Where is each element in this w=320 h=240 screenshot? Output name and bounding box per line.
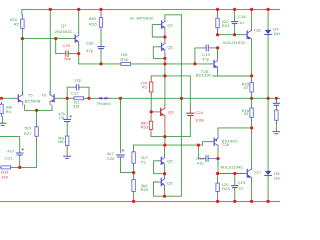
svg-text:C24: C24: [195, 110, 203, 115]
wire node F to R7: [67, 97, 74, 99]
wire C18 column: [234, 9, 236, 34]
svg-text:Q5: Q5: [167, 159, 173, 164]
transistor T27 MJL21194C npn: [243, 165, 251, 181]
junction dot C22 to P1 R29: [132, 171, 135, 174]
svg-text:C26: C26: [86, 40, 94, 45]
transistor T5 BC550B npn: [15, 92, 23, 105]
wire R7 right to probe: [84, 97, 99, 99]
wire R33 top red lead from Q3 base node: [150, 112, 152, 116]
wire bootstrap spine x=181: [165, 15, 182, 196]
wire T27 base net: [218, 173, 244, 175]
wire R16 leads: [251, 98, 253, 128]
capacitor C13 47p: [206, 45, 208, 51]
svg-text:4u7: 4u7: [107, 151, 115, 156]
capacitor zobel C (right edge): [273, 103, 279, 105]
diode D4: [265, 30, 272, 34]
wire Q7 collector riser: [78, 9, 80, 32]
wire probe to output rail right: [107, 97, 280, 99]
wire Q3 emitter red segment: [164, 119, 166, 134]
svg-text:T28: T28: [254, 27, 262, 32]
wire R26 column / C26 chain: [100, 9, 102, 64]
wire probe node drop to C22: [120, 98, 122, 153]
svg-text:Q2: Q2: [168, 45, 174, 50]
svg-text:T6: T6: [41, 92, 47, 97]
resistor R33 680 red: [150, 116, 152, 134]
wire tail node down to R27: [36, 110, 38, 124]
svg-text:R24: R24: [222, 23, 230, 28]
wire node E7 down to drive rail: [79, 54, 121, 64]
svg-text:47p: 47p: [197, 160, 205, 165]
wire T5 emitter tail: [25, 105, 52, 110]
wire C13 node to T25 collector top: [211, 47, 217, 49]
resistor zobel R19: [275, 110, 278, 120]
capacitor C14 47p: [206, 156, 208, 162]
wire feedback rail to T26 base jog: [134, 142, 211, 149]
junction dot C14 to T26 collector: [216, 157, 219, 160]
wire main output rail left segment: [0, 97, 15, 99]
wire R2 bottom to Q7 base (node VB): [22, 32, 74, 39]
wire R33 bottom corner: [150, 134, 152, 136]
wire C17 parallel loop: [67, 87, 89, 98]
svg-text:12p: 12p: [74, 77, 82, 82]
wire T25 emitter drop to rail76: [217, 71, 219, 76]
trimpot P2 720 red: [150, 76, 152, 95]
svg-text:C21: C21: [5, 155, 13, 160]
wire Q5 collector from feedback rail: [164, 145, 166, 154]
wire C23 left loop: [56, 39, 63, 54]
capacitor C19 1n: [232, 186, 238, 188]
svg-text:R2: R2: [14, 22, 20, 27]
svg-text:C23: C23: [62, 43, 70, 48]
svg-text:MJL21194C: MJL21194C: [221, 164, 243, 169]
svg-text:T26: T26: [222, 142, 230, 147]
svg-text:47p: 47p: [86, 48, 94, 53]
svg-text:C18: C18: [238, 14, 246, 19]
transistor T28 MJL21193C npn: [243, 27, 252, 43]
resistor R30 100: [121, 62, 131, 65]
wire C22 bottom corner to P1/R29 node: [121, 159, 134, 172]
svg-text:1N4: 1N4: [274, 175, 280, 180]
junction dots VAS spine: [163, 35, 166, 38]
transistor Q5 MPSA92 pnp: [158, 155, 165, 168]
svg-text:R23: R23: [222, 186, 230, 191]
svg-text:3x MPSA92: 3x MPSA92: [130, 15, 154, 20]
wire R16 node down to T27 collector: [251, 128, 253, 165]
svg-text:R29: R29: [141, 187, 149, 192]
junction dots T28 base net: [216, 33, 219, 36]
svg-text:BD139C: BD139C: [196, 73, 212, 78]
capacitor C24 100n red: [187, 113, 194, 115]
svg-text:T5: T5: [28, 92, 34, 97]
svg-text:R31: R31: [1, 169, 9, 174]
junction dots VB wire: [21, 37, 24, 40]
wire T26 emitter link: [218, 128, 252, 135]
svg-text:Q1: Q1: [168, 22, 174, 27]
transistor T25 BD139C npn: [211, 57, 218, 71]
wire upper bias rail left segment: [151, 75, 190, 77]
wire Q7 emitter drop: [78, 45, 80, 53]
wire T27 emitter to bottom rail: [251, 181, 253, 201]
wire T28 base net: [218, 34, 244, 36]
junction dot Q3 base node: [150, 110, 153, 113]
resistor R4 33k: [1, 102, 3, 116]
wire Q5 emitter to Q6: [164, 168, 166, 176]
junction dot bias rail y76: [250, 74, 253, 77]
transistor Q7 2N3483C pnp: [75, 33, 79, 46]
ground below R4: [0, 123, 6, 125]
transistor Q3 red npn: [151, 105, 165, 119]
wire Q1 base diode loop: [152, 25, 165, 37]
resistor R16 .33: [251, 105, 253, 120]
wire Q6 emitter to loop node: [164, 189, 166, 196]
svg-text:Q6: Q6: [167, 180, 173, 185]
wire T6 base to node F: [55, 97, 67, 99]
junction dot Q7 emitter node: [77, 52, 80, 55]
wire top positive rail: [22, 8, 280, 10]
wire R27 bottom to R11 wire: [12, 140, 36, 168]
svg-text:C19: C19: [238, 180, 246, 185]
svg-text:.47: .47: [243, 85, 250, 90]
wire Q1 collector bootstrap loop: [165, 15, 182, 18]
wire bottom negative rail: [0, 200, 280, 202]
wire C19 leads: [234, 174, 236, 202]
junction dots bottom rail: [132, 200, 135, 203]
svg-text:Q3: Q3: [168, 109, 174, 114]
wire T28 collector to top rail: [251, 9, 253, 26]
svg-text:680: 680: [89, 16, 97, 21]
junction dots top rail: [49, 8, 52, 11]
junction dots Q5 Q6 loops: [163, 172, 166, 175]
junction dots T27 base net: [216, 172, 219, 175]
resistor P1 2k7: [133, 149, 135, 166]
wire R15 leads: [251, 76, 253, 98]
wire T26 collector drop: [217, 149, 219, 173]
wire C13 left corner drop to base rail: [195, 48, 203, 64]
wire R2 top lead drop: [21, 9, 23, 14]
probe symbol Probe1: [97, 97, 110, 99]
svg-text:R26: R26: [89, 21, 97, 26]
svg-text:MJL21193C: MJL21193C: [223, 40, 245, 45]
svg-text:R30: R30: [120, 57, 128, 62]
resistor R2 620: [21, 15, 23, 32]
wire C14 hang from feedback rail (green drawn here for grouping): [197, 145, 199, 158]
svg-text:100n: 100n: [195, 118, 204, 123]
ground zobel: [273, 132, 280, 134]
capacitor C21 4u7 polarized: [16, 153, 23, 155]
junction dot LTP tail: [35, 109, 38, 112]
svg-text:C17: C17: [71, 91, 79, 96]
svg-text:1N4: 1N4: [273, 31, 280, 36]
wire T6 collector column: [49, 9, 51, 94]
svg-text:P2: P2: [142, 85, 148, 90]
wire Q3 emitter to bias node: [164, 134, 166, 145]
svg-text:47p: 47p: [202, 57, 210, 62]
svg-text:.33: .33: [243, 111, 250, 116]
capacitor C5 47u polarized: [64, 119, 71, 121]
wire R23 leads: [217, 174, 219, 202]
junction dots output rail: [0, 97, 3, 100]
capacitor C23 56p red: [66, 51, 68, 56]
transistor T6 BC550B npn mirrored: [50, 92, 55, 105]
transistor Q6 MPSA92 pnp: [158, 175, 165, 189]
svg-text:Probe1: Probe1: [97, 101, 111, 106]
wire Q2 emitter VAS spine: [164, 54, 166, 104]
svg-text:1n: 1n: [239, 20, 244, 25]
wire R24 column: [217, 9, 219, 34]
junction dots bias lower nodes: [163, 135, 166, 138]
junction dot C21 node: [18, 166, 21, 169]
svg-text:C5: C5: [59, 115, 65, 120]
wire bias lower link R33 to C24: [151, 136, 190, 138]
svg-text:T27: T27: [254, 170, 262, 175]
svg-text:2N3483C: 2N3483C: [55, 29, 73, 34]
capacitor C17 12p: [76, 85, 78, 90]
wire Q1 emitter to Q2 collector spine: [164, 33, 166, 40]
svg-text:7k5: 7k5: [24, 125, 31, 130]
wire P2 bottom to Q3 base node: [150, 95, 152, 112]
junction dot C13 node: [216, 46, 219, 49]
wire Q6 base diode loop: [154, 182, 165, 196]
wire T25 collector riser: [217, 48, 219, 57]
resistor R26 680: [100, 14, 102, 31]
wire Q5 base diode loop: [154, 161, 165, 174]
transistor Q2 MPSA92 pnp: [158, 40, 165, 54]
wire T28 emitter long drop: [251, 42, 253, 76]
wire upper bias rail right segment: [213, 75, 252, 77]
ground below R8: [64, 156, 71, 158]
transistor Q1 MPSA92 pnp: [158, 18, 165, 34]
svg-text:R4: R4: [6, 109, 12, 114]
wire T5 collector column: [21, 39, 23, 95]
junction dot R16 bottom node: [250, 126, 253, 129]
resistor R24 220: [217, 16, 219, 31]
wire C21 column: [0, 137, 20, 168]
svg-text:Q7: Q7: [61, 23, 67, 28]
svg-text:C22: C22: [107, 156, 115, 161]
svg-text:33k: 33k: [73, 104, 81, 109]
wire C23 right to Q7 emitter node: [71, 53, 79, 55]
resistor R11 horizontal bottom left: [1, 166, 11, 169]
junction dots drive rail: [99, 62, 102, 65]
resistor R8 360: [66, 134, 68, 150]
resistor R7 33k: [74, 97, 84, 100]
svg-text:R33: R33: [141, 125, 149, 130]
svg-text:P1: P1: [141, 160, 147, 165]
resistor R29 3k9: [132, 180, 135, 192]
wire drive rail R30 to T25 base: [131, 63, 211, 65]
wire diode chain column: [267, 9, 269, 201]
svg-text:56p: 56p: [64, 56, 72, 61]
wire C5 R8 ground chain: [66, 98, 68, 155]
transistor T26 BD140C pnp (emitter up): [210, 135, 218, 150]
wire Q2 base diode loop: [153, 47, 165, 59]
resistor R23 120: [217, 181, 219, 194]
capacitor C18 1n: [232, 22, 238, 24]
svg-text:R27: R27: [24, 131, 32, 136]
resistor R15 .47: [251, 80, 253, 95]
capacitor C26 47p: [98, 47, 104, 49]
svg-text:1n: 1n: [239, 186, 244, 191]
wire R4 drop: [2, 116, 4, 122]
diode D5: [265, 171, 272, 175]
wire zobel column: [275, 98, 277, 130]
wire C24 hang from rail: [189, 76, 191, 137]
wire P1 to R29 node: [133, 166, 135, 202]
svg-text:360: 360: [58, 139, 66, 144]
resistor R27 7k5: [36, 124, 38, 140]
svg-text:4u7: 4u7: [7, 148, 15, 153]
capacitor C22 4u7 polarized: [117, 155, 125, 157]
svg-text:BC550B: BC550B: [25, 99, 41, 104]
svg-text:1k6: 1k6: [1, 175, 8, 180]
